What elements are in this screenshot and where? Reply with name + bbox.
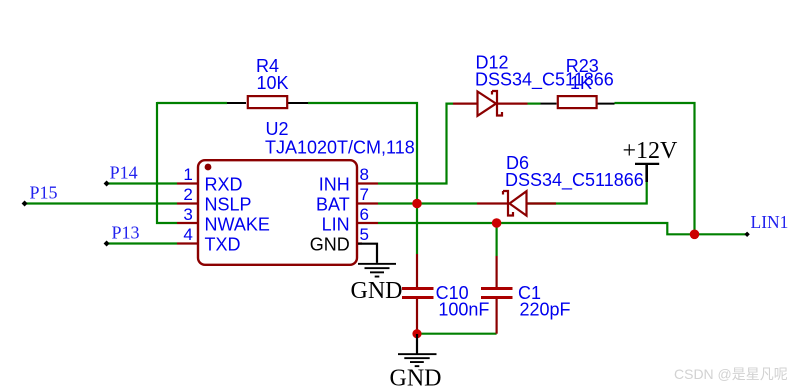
- wire top rail left segment: [157, 102, 227, 104]
- svg-text:7: 7: [360, 185, 369, 204]
- ground symbol at pin 5: [358, 244, 396, 278]
- svg-text:3: 3: [183, 205, 192, 224]
- resistor R23: [541, 96, 615, 108]
- svg-text:LIN1: LIN1: [751, 212, 789, 232]
- svg-text:10K: 10K: [257, 73, 289, 93]
- svg-text:DSS34_C511866: DSS34_C511866: [505, 170, 644, 191]
- svg-text:100nF: 100nF: [438, 300, 489, 320]
- svg-text:INH: INH: [319, 174, 350, 194]
- wire INH to D12 anode riser: [378, 104, 453, 184]
- wire P15 net: [25, 202, 177, 204]
- wire end cross P13: [104, 241, 110, 247]
- pin 4 TXD stub: [177, 242, 198, 244]
- capacitor C10: [402, 254, 434, 334]
- svg-text:CSDN @是星凡呢: CSDN @是星凡呢: [674, 366, 788, 382]
- svg-text:U2: U2: [266, 119, 289, 139]
- pin 3 NWAKE stub: [177, 222, 198, 224]
- svg-text:6: 6: [360, 205, 369, 224]
- svg-text:5: 5: [360, 225, 369, 244]
- junction dot BAT node: [412, 199, 422, 209]
- svg-text:P14: P14: [110, 163, 138, 183]
- wire left vertical bus x=157: [157, 102, 177, 223]
- wire R23 right to LIN1 rail: [615, 103, 695, 234]
- junction dot LIN1 corner node: [690, 230, 700, 240]
- pin 8 INH stub: [357, 182, 378, 184]
- svg-text:GND: GND: [310, 234, 350, 254]
- wire D12 cathode to R23: [528, 102, 541, 104]
- junction dot C10 ground node: [412, 329, 421, 338]
- svg-text:1: 1: [183, 165, 192, 184]
- svg-text:GND: GND: [351, 278, 403, 304]
- wire LIN to LIN1 port: [378, 223, 747, 234]
- wire P13 net: [107, 242, 177, 244]
- svg-text:P15: P15: [30, 182, 58, 202]
- capacitor C1: [481, 256, 513, 334]
- svg-text:BAT: BAT: [316, 194, 350, 214]
- svg-text:RXD: RXD: [205, 174, 243, 194]
- svg-text:DSS34_C511866: DSS34_C511866: [475, 70, 614, 91]
- wire BAT to D6: [378, 202, 477, 204]
- svg-text:220pF: 220pF: [520, 300, 571, 320]
- wire end cross LIN1: [744, 232, 749, 237]
- pin 2 NSLP stub: [177, 202, 198, 204]
- svg-text:P13: P13: [112, 223, 140, 243]
- IC U2 pin1 marker dot: [205, 164, 212, 171]
- wire end cross P15: [22, 201, 28, 207]
- svg-text:8: 8: [360, 165, 369, 184]
- wire R4 right to vertical x=417: [308, 103, 417, 254]
- ground symbol bottom: [398, 334, 437, 367]
- diode D6: [477, 191, 556, 216]
- svg-text:2: 2: [183, 185, 192, 204]
- svg-text:TJA1020T/CM,118: TJA1020T/CM,118: [265, 138, 415, 158]
- resistor R4: [227, 96, 308, 108]
- wire end cross P14: [104, 181, 110, 187]
- wire C1 top lead green: [496, 223, 498, 256]
- svg-text:4: 4: [183, 225, 192, 244]
- pin 7 BAT stub: [357, 202, 378, 204]
- power port +12V: [635, 164, 659, 182]
- svg-text:TXD: TXD: [205, 234, 241, 254]
- wire P14 net: [107, 182, 177, 184]
- junction dot LIN node: [492, 218, 502, 228]
- pin 6 LIN stub: [357, 222, 378, 224]
- svg-text:GND: GND: [390, 365, 442, 390]
- IC U2 body: [198, 160, 357, 265]
- svg-text:LIN: LIN: [322, 214, 350, 234]
- svg-text:NWAKE: NWAKE: [205, 214, 270, 234]
- svg-text:NSLP: NSLP: [205, 194, 252, 214]
- pin 5 GND stub: [358, 242, 362, 244]
- diode D12: [453, 91, 528, 116]
- svg-text:+12V: +12V: [623, 138, 679, 164]
- wire C10 to C1 ground link: [417, 333, 497, 335]
- wire D6 anode to +12V riser: [527, 182, 647, 204]
- pin 1 RXD stub: [177, 182, 198, 184]
